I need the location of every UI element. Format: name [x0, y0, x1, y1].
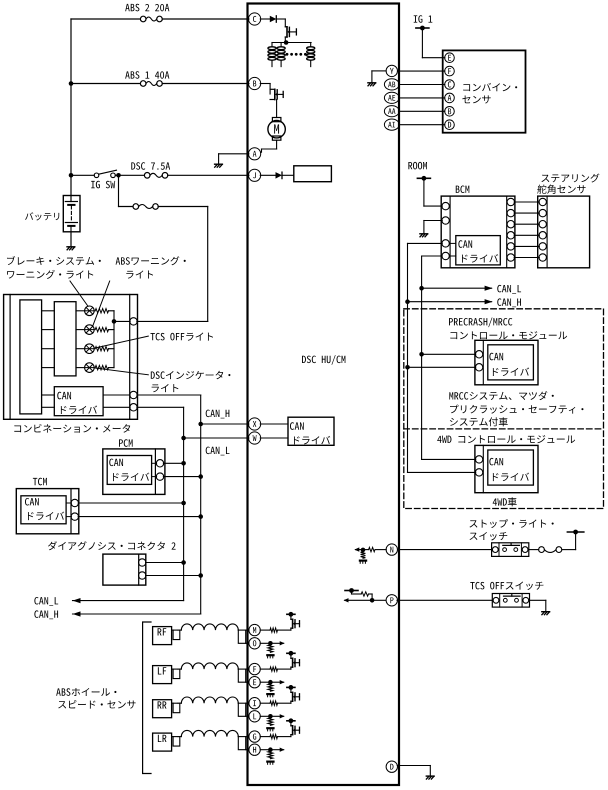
BCM box: [456, 186, 470, 194]
diag pin CAN_H: [139, 572, 146, 579]
label PRECRASH/MRCC module: [449, 318, 512, 328]
ground pin A: [215, 163, 223, 165]
switch IG SW: [71, 174, 94, 176]
wire 4WD CAN_L: [422, 458, 476, 460]
BCM pin feed: [442, 202, 449, 209]
pin AA: [384, 106, 399, 117]
CAN driver (PRECRASH): [488, 345, 534, 380]
meter pin lamp feed: [130, 318, 137, 325]
wire pin P internal: [372, 599, 386, 601]
wire IG SW to DSC fuse to pin J: [115, 174, 144, 176]
CAN driver (4WD): [488, 450, 534, 485]
wire TCM to CAN_L bus: [78, 502, 183, 504]
label CAN_H: [206, 410, 230, 419]
lamp brake system warning light: [76, 310, 85, 312]
pin A: [249, 148, 261, 160]
PRECRASH module box: [475, 340, 538, 385]
power tap ROOM: [408, 162, 427, 170]
wire sensor return RF wheel: [246, 642, 249, 644]
wire IG 1 to sensor pin E: [421, 28, 423, 58]
CAN driver (BCM): [456, 236, 501, 265]
TCM pin CAN_H: [71, 513, 78, 520]
power tap LF input: [287, 652, 295, 654]
CAN driver (PCM): [107, 456, 151, 485]
wire pin N to stop light switch: [398, 549, 492, 551]
resistor LR input signal: [260, 736, 270, 738]
wire PRECRASH CAN_L: [422, 353, 476, 355]
pin C: [249, 13, 261, 25]
wire meter lamp feed branch: [118, 175, 120, 206]
wire CAN_H bus left: [137, 394, 201, 396]
transistor RR input pullup: [290, 701, 292, 703]
battery: [63, 196, 80, 232]
wire BCM to steering sensor 2: [514, 212, 539, 214]
pin N: [386, 544, 397, 555]
node solenoid rail: [284, 40, 289, 45]
fuse ABS 1 40A: [140, 81, 146, 87]
solenoid coil 2: [280, 43, 282, 47]
wire RF input return: [260, 642, 270, 644]
label CAN_H bottom: [34, 610, 58, 619]
wire AI to D: [399, 124, 445, 126]
fuse meter lamp feed: [133, 204, 139, 210]
wire switch to connector: [529, 549, 539, 551]
resistor RF input return: [268, 645, 273, 653]
lamp ABS warning light: [76, 329, 85, 331]
ground BCM: [420, 233, 428, 235]
wire ROOM to BCM: [423, 178, 425, 206]
resistor LR input return: [268, 751, 273, 759]
resistor pin N: [369, 547, 375, 551]
wire pin A to ground: [219, 153, 249, 155]
motor M pump: [272, 118, 281, 122]
steering sensor pin 4: [539, 232, 546, 239]
wire BCM to steering sensor 6: [514, 257, 539, 259]
sensor pin A: [445, 93, 455, 103]
sensor pin B: [445, 107, 455, 117]
CAN driver (TCM): [21, 496, 66, 524]
pin P: [386, 595, 397, 606]
pointer ABS warning: [93, 281, 110, 326]
sensor RF wheel: [153, 627, 172, 645]
ground RF input return: [266, 654, 274, 656]
pin L: [249, 711, 260, 722]
wire CAN_H arrow right: [408, 301, 492, 303]
steering sensor pin 5: [539, 243, 546, 250]
arrow LR input return: [280, 748, 285, 752]
label 4WD module: [437, 435, 575, 443]
BCM right pin 3: [507, 221, 514, 228]
label CAN_L bottom: [34, 597, 58, 606]
label brake system warning light: [7, 256, 101, 265]
ground LF input return: [266, 693, 274, 695]
wire sensor return LF wheel: [246, 681, 249, 683]
4WD module box: [475, 445, 538, 492]
TCS OFF switch: [492, 594, 529, 608]
wire connector to power: [562, 549, 576, 551]
4WD pin CAN_H: [475, 469, 482, 476]
resistor LF input return: [268, 684, 273, 692]
power tap RF input: [287, 613, 295, 615]
wire LR input return: [260, 749, 270, 751]
diode pin J: [276, 172, 283, 179]
label TCS OFF switch: [470, 582, 543, 590]
steering sensor pin 2: [539, 209, 546, 216]
wire AB to C: [399, 84, 445, 86]
wire diag to CAN_L bus: [146, 562, 184, 564]
combine sensor box: [443, 50, 526, 132]
wire AA to B: [399, 110, 445, 112]
ground pin D: [426, 775, 434, 777]
wire BCM to steering sensor 5: [514, 245, 539, 247]
pointer TCS OFF light: [95, 336, 148, 348]
pin G: [249, 731, 260, 742]
wire PCM to CAN_H bus: [163, 476, 200, 478]
combination meter box: [4, 295, 138, 420]
label diagnosis connector 2: [48, 541, 176, 550]
steering sensor pin 3: [539, 221, 546, 228]
meter internal block: [20, 300, 42, 414]
wire motor to pin A: [276, 140, 278, 149]
power tap RR input: [287, 686, 295, 688]
transistor RF input pullup: [290, 628, 292, 630]
sensor LF wheel: [153, 666, 172, 684]
label 4WD vehicle: [493, 497, 517, 506]
sensor pin C: [445, 80, 455, 90]
wire PRECRASH CAN_H: [408, 366, 476, 368]
PRECRASH pin CAN_H: [475, 364, 482, 371]
BCM right pin 2: [507, 209, 514, 216]
pin D: [386, 761, 397, 772]
sensor LR wheel: [153, 733, 172, 751]
pin E: [249, 677, 260, 688]
wire pin N internal: [375, 549, 386, 551]
pin W: [249, 432, 261, 444]
inline connector: [539, 547, 545, 553]
resistor pin P pullup: [371, 594, 373, 600]
label CAN_H right: [497, 298, 521, 307]
steering sensor pin 6: [539, 254, 546, 261]
TCM box: [33, 478, 47, 486]
dashed option modules box: [404, 309, 604, 509]
pin X: [249, 418, 261, 430]
diag pin CAN_L: [139, 559, 146, 566]
solenoid coil 3: [310, 43, 312, 47]
wire CAN_L bus left: [137, 406, 184, 408]
resistor RR input signal: [260, 702, 270, 704]
fuse ABS 2 20A: [140, 16, 146, 22]
wire Y to F: [398, 70, 445, 72]
pointer DSC indicator: [95, 368, 148, 375]
BCM right pin 4: [507, 232, 514, 239]
power tap pin P: [345, 590, 358, 592]
ground TCS OFF switch: [542, 611, 550, 613]
wire BCM to steering sensor 1: [514, 201, 539, 203]
steering sensor pin 1: [539, 198, 546, 205]
ground LR input return: [266, 761, 274, 763]
wire sensor return LR wheel: [246, 749, 249, 751]
resistor RR input return: [268, 718, 273, 726]
label stop light switch: [469, 519, 553, 528]
arrow RF input return: [280, 641, 285, 645]
wire BCM to steering sensor 4: [514, 234, 539, 236]
wire battery to ground: [70, 232, 72, 247]
wire TCM to CAN_H bus: [78, 516, 201, 518]
transistor motor driver: [270, 88, 275, 90]
arrow CAN_H left: [73, 611, 81, 616]
ground pin Y: [368, 82, 376, 84]
BCM right pin 1: [507, 198, 514, 205]
bracket wheel sensors: [143, 622, 151, 774]
pointer brake warning: [70, 281, 88, 306]
label CAN_L: [206, 447, 230, 456]
fuse DSC 7.5A: [144, 173, 150, 179]
wire lamp collector: [109, 310, 115, 312]
transistor LR input pullup: [290, 735, 292, 737]
arrow pin N internal: [356, 549, 364, 551]
wire pin J internal: [260, 174, 275, 176]
wire CAN_H bus right: [408, 242, 443, 244]
wire pin Y to ground: [372, 70, 386, 72]
diagnosis connector box: [103, 554, 146, 585]
resistor RF input signal: [260, 629, 270, 631]
pin AE: [384, 92, 399, 103]
label TCS OFF light: [150, 333, 213, 341]
wire 4WD CAN_H: [408, 471, 476, 473]
pin I: [249, 698, 260, 709]
sensor pin E: [445, 53, 455, 63]
wire diag to CAN_H bus: [146, 575, 201, 577]
label DSC indicator light: [151, 371, 231, 379]
pin M: [249, 624, 260, 635]
wire AE to A: [399, 97, 445, 99]
pin Y: [386, 65, 397, 76]
wire BCM to steering sensor 3: [514, 223, 539, 225]
arrow pin P internal: [345, 599, 372, 601]
wire TCS switch to ground: [530, 599, 546, 601]
label MRCC option note: [449, 391, 553, 400]
arrow CAN_L left: [73, 598, 81, 603]
BCM pin CAN wires: [442, 240, 449, 247]
label ABS warning light: [116, 256, 186, 265]
wire twisted pair LR wheel: [172, 736, 178, 738]
pin J: [249, 169, 261, 181]
4WD pin CAN_L: [475, 456, 482, 463]
diode valve feed: [270, 16, 277, 22]
dots ellipsis solenoids: [286, 53, 289, 56]
label ABS wheel speed sensor: [56, 688, 116, 696]
wire pin W CAN_L: [184, 437, 249, 439]
pin F: [249, 663, 260, 674]
wire pin B internal: [260, 83, 270, 85]
wire battery feed bus: [70, 19, 72, 196]
wire pin X CAN_H: [201, 423, 249, 425]
BCM pin ground: [442, 217, 449, 224]
transistor valve driver: [285, 26, 287, 28]
power tap IG 1: [414, 15, 433, 23]
wire pin P to TCS OFF switch: [397, 599, 492, 601]
wire twisted pair RF wheel: [172, 629, 178, 631]
pin O: [249, 638, 260, 649]
wire BCM ground: [424, 220, 442, 222]
meter pin CAN_L: [130, 404, 137, 411]
meter pin CAN_H: [130, 391, 137, 398]
CAN driver (DSC): [260, 423, 288, 425]
solenoid coil 1: [271, 43, 273, 47]
meter lamp panel: [54, 302, 76, 376]
wire CAN_L bus right: [422, 255, 443, 257]
ground battery: [67, 246, 75, 248]
pin AB: [384, 79, 399, 90]
power tap stop light: [567, 531, 583, 533]
wire sensor return RR wheel: [246, 715, 249, 717]
PRECRASH pin CAN_L: [475, 351, 482, 358]
wire pin C internal: [260, 18, 270, 20]
pin AI: [384, 119, 399, 130]
wire twisted pair LF wheel: [172, 668, 178, 670]
wire CAN_L arrow right: [422, 287, 492, 289]
PCM box: [119, 439, 133, 447]
PCM pin CAN_H: [156, 473, 163, 480]
wire pin D to ground: [397, 765, 430, 767]
sensor pin F: [445, 66, 455, 76]
sensor pin D: [445, 120, 455, 130]
sensor RR wheel: [153, 700, 172, 718]
resistor pin N pulldown: [361, 552, 366, 558]
relay box internal: [294, 166, 332, 182]
PCM pin CAN_L: [156, 460, 163, 467]
ground pin N: [359, 560, 367, 562]
arrow LF input return: [280, 680, 285, 684]
label combination meter: [14, 424, 130, 433]
CAN driver (meter): [54, 387, 103, 416]
steering angle sensor box: [541, 173, 599, 182]
DSC HU/CM box: [248, 4, 400, 786]
lamp TCS OFF light: [76, 348, 85, 350]
arrow RR input return: [280, 714, 285, 718]
wire twisted pair RR wheel: [172, 702, 178, 704]
ground RR input return: [266, 727, 274, 729]
transistor LF input pullup: [290, 667, 292, 669]
wire ABS 1 fuse feed to pin B: [71, 83, 140, 85]
wire PCM to CAN_L bus: [163, 462, 183, 464]
BCM right pin 5: [507, 243, 514, 250]
wire LF input return: [260, 681, 270, 683]
lamp DSC indicator light: [76, 367, 85, 369]
label CAN_L right: [497, 285, 521, 294]
stop light switch: [492, 543, 529, 557]
TCM pin CAN_L: [71, 499, 78, 506]
wire RR input return: [260, 715, 270, 717]
wire ABS 2 fuse feed to pin C: [71, 18, 140, 20]
BCM right pin 6: [507, 254, 514, 261]
power tap LR input: [287, 720, 295, 722]
resistor LF input signal: [260, 668, 270, 670]
pin B: [249, 77, 261, 89]
pin H: [249, 744, 260, 755]
